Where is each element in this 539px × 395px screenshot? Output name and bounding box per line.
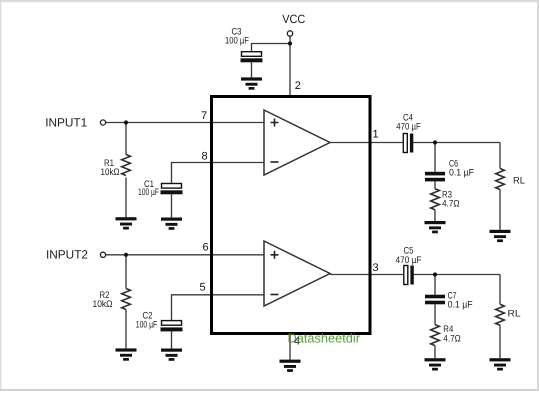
wire R1 to ground bbox=[125, 178, 127, 218]
svg-text:INPUT1: INPUT1 bbox=[45, 115, 87, 129]
wire C2 bottom lead bbox=[171, 331, 173, 348]
label R1 value bbox=[101, 158, 120, 178]
resistor R3 zigzag bbox=[431, 189, 440, 210]
label C2 value bbox=[136, 311, 158, 331]
ground (C1) bbox=[161, 218, 182, 230]
wire C7 top lead bbox=[434, 275, 436, 295]
wire R2 top lead bbox=[125, 255, 127, 289]
label R4 value bbox=[443, 324, 461, 345]
label C1 value bbox=[138, 179, 159, 198]
wire R4 to ground bbox=[434, 346, 436, 359]
wire pin 5 net (to C2) bbox=[172, 295, 265, 321]
ground (RL1) bbox=[490, 230, 511, 242]
op-amp U1B bbox=[264, 241, 330, 306]
ground (R2) bbox=[116, 348, 137, 360]
terminal VCC bbox=[287, 31, 292, 36]
resistor RL2 zigzag bbox=[496, 304, 505, 325]
svg-text:RL: RL bbox=[513, 175, 525, 186]
IC U1 box bbox=[212, 97, 371, 334]
wire VCC to pin 2 bbox=[289, 36, 291, 96]
junction C5/C7 bbox=[433, 272, 437, 276]
wire R2 to ground bbox=[125, 310, 127, 349]
resistor R2 zigzag bbox=[122, 289, 131, 310]
wire C7 to R4 bbox=[434, 304, 436, 324]
wire C6 to R3 bbox=[434, 181, 436, 188]
svg-text:VCC: VCC bbox=[282, 12, 305, 26]
label R3 value bbox=[442, 190, 460, 210]
ground (R1) bbox=[116, 217, 137, 229]
svg-text:4.7Ω: 4.7Ω bbox=[443, 334, 461, 345]
wire R1 top lead bbox=[125, 123, 127, 155]
wire pin 8 net (to C1) bbox=[172, 163, 265, 184]
svg-text:10kΩ: 10kΩ bbox=[93, 299, 113, 310]
resistor R1 zigzag bbox=[122, 155, 131, 176]
terminal INPUT1 bbox=[100, 120, 105, 125]
wire R3 to ground bbox=[434, 210, 436, 221]
svg-text:7: 7 bbox=[201, 110, 207, 122]
svg-text:0.1 µF: 0.1 µF bbox=[449, 168, 474, 179]
svg-text:470 µF: 470 µF bbox=[396, 255, 422, 266]
capacitor C1 plates bbox=[161, 184, 183, 195]
svg-text:0.1 µF: 0.1 µF bbox=[448, 300, 473, 311]
wire RL1 to ground bbox=[499, 190, 501, 230]
svg-text:3: 3 bbox=[372, 262, 378, 274]
capacitor C5 plates bbox=[404, 266, 414, 285]
wire C3 bottom lead bbox=[251, 62, 253, 77]
ground (pin 4) bbox=[280, 360, 301, 372]
ground (R4) bbox=[425, 358, 446, 370]
wire RL2 to ground bbox=[499, 325, 501, 358]
capacitor C6 plates bbox=[425, 172, 445, 182]
wire C3 branch bbox=[252, 44, 291, 52]
wire C4 to RL corner bbox=[413, 142, 500, 144]
junction C4/C6 bbox=[433, 140, 437, 144]
svg-text:RL: RL bbox=[508, 309, 521, 320]
label C5 value bbox=[396, 245, 422, 265]
wire RL1 top lead bbox=[499, 143, 501, 169]
junction INPUT2/R2 bbox=[124, 253, 128, 257]
svg-text:100 µF: 100 µF bbox=[136, 320, 158, 331]
ground (C2) bbox=[161, 349, 182, 361]
svg-text:100 µF: 100 µF bbox=[138, 187, 159, 198]
svg-text:6: 6 bbox=[202, 242, 208, 254]
svg-text:1: 1 bbox=[372, 129, 378, 141]
label C7 value bbox=[448, 291, 473, 311]
label R2 value bbox=[93, 290, 113, 310]
svg-text:10kΩ: 10kΩ bbox=[101, 167, 120, 178]
wire output pin 3 bbox=[330, 274, 404, 276]
label C3 value bbox=[225, 26, 249, 46]
capacitor C3 plates bbox=[241, 52, 263, 63]
label C6 value bbox=[449, 158, 474, 178]
junction VCC/C3 bbox=[288, 41, 292, 45]
wire INPUT1 to pin 7 (+) bbox=[106, 122, 264, 124]
resistor RL1 zigzag bbox=[496, 169, 505, 190]
svg-text:INPUT2: INPUT2 bbox=[46, 248, 88, 262]
wire pin 4 to ground bbox=[289, 335, 291, 360]
capacitor C4 plates bbox=[403, 134, 413, 153]
label C4 value bbox=[396, 112, 421, 132]
svg-text:100 µF: 100 µF bbox=[225, 35, 249, 46]
ground (C3) bbox=[241, 77, 262, 89]
wire INPUT2 to pin 6 (+) bbox=[106, 254, 264, 256]
terminal INPUT2 bbox=[100, 252, 105, 257]
wire C5 to RL corner bbox=[414, 274, 501, 276]
resistor R4 zigzag bbox=[431, 325, 440, 346]
wire RL2 top lead bbox=[499, 275, 501, 305]
capacitor C7 plates bbox=[425, 295, 445, 305]
svg-text:4.7Ω: 4.7Ω bbox=[442, 198, 460, 209]
ground (R3) bbox=[425, 221, 446, 233]
svg-text:2: 2 bbox=[295, 80, 301, 92]
wire output pin 1 bbox=[330, 142, 403, 144]
svg-text:Datasheetdir: Datasheetdir bbox=[288, 330, 361, 345]
junction INPUT1/R1 bbox=[124, 120, 128, 124]
ground (RL2) bbox=[490, 358, 511, 370]
capacitor C2 plates bbox=[161, 321, 183, 332]
wire C6 top lead bbox=[434, 143, 436, 172]
op-amp U1A bbox=[264, 110, 330, 175]
svg-text:8: 8 bbox=[201, 151, 207, 163]
svg-text:5: 5 bbox=[199, 282, 205, 294]
svg-text:470 µF: 470 µF bbox=[396, 121, 421, 132]
wire C1 bottom lead bbox=[171, 194, 173, 217]
